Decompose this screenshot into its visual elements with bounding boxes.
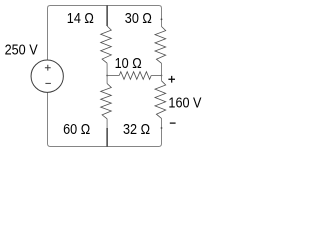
wire: middle branch lower black lead xyxy=(106,128,108,147)
resistor R2 60 ohm zigzag xyxy=(101,84,112,119)
resistor R5 10 ohm horizontal zigzag xyxy=(119,72,151,80)
wire: outer loop upper (left wire top + top wire + right wire top) xyxy=(48,6,162,61)
svg-text:32 Ω: 32 Ω xyxy=(123,121,150,137)
node junction on right branch xyxy=(161,75,163,77)
resistor R1 14 ohm zigzag xyxy=(101,26,112,63)
polarity minus sign for 160 V xyxy=(170,122,176,124)
resistor R3 30 ohm zigzag xyxy=(155,27,166,64)
svg-text:14 Ω: 14 Ω xyxy=(67,10,94,26)
wire: right branch segment between junction and 32 ohm xyxy=(161,76,163,81)
svg-text:160 V: 160 V xyxy=(168,95,201,111)
svg-text:30 Ω: 30 Ω xyxy=(125,10,152,26)
wire: middle branch upper black lead xyxy=(106,6,108,27)
svg-text:10 Ω: 10 Ω xyxy=(115,55,142,71)
wire: horizontal 10 ohm branch left stub xyxy=(107,75,119,77)
svg-text:250 V: 250 V xyxy=(5,42,38,58)
pin dot on right wire lower xyxy=(161,127,163,129)
voltage source V1 250V circle xyxy=(31,60,63,92)
wire: outer loop lower (left wire bottom + bottom wire + right wire bottom) xyxy=(48,92,162,146)
node junction on middle branch xyxy=(106,75,108,77)
wire: right branch segment between 30 ohm and junction xyxy=(161,63,163,75)
wire: middle branch gray segment between 14 ohm and 60 ohm xyxy=(106,63,108,83)
resistor R4 32 ohm zigzag xyxy=(155,81,166,119)
pin dot on right wire upper xyxy=(161,18,163,20)
svg-text:60 Ω: 60 Ω xyxy=(63,121,90,137)
polarity plus sign for 160 V xyxy=(168,76,175,83)
voltage source minus sign xyxy=(45,82,51,84)
wire: horizontal 10 ohm branch right stub xyxy=(151,75,161,77)
voltage source plus sign xyxy=(45,65,51,71)
wire: middle branch gray segment below 60 ohm xyxy=(106,119,108,129)
